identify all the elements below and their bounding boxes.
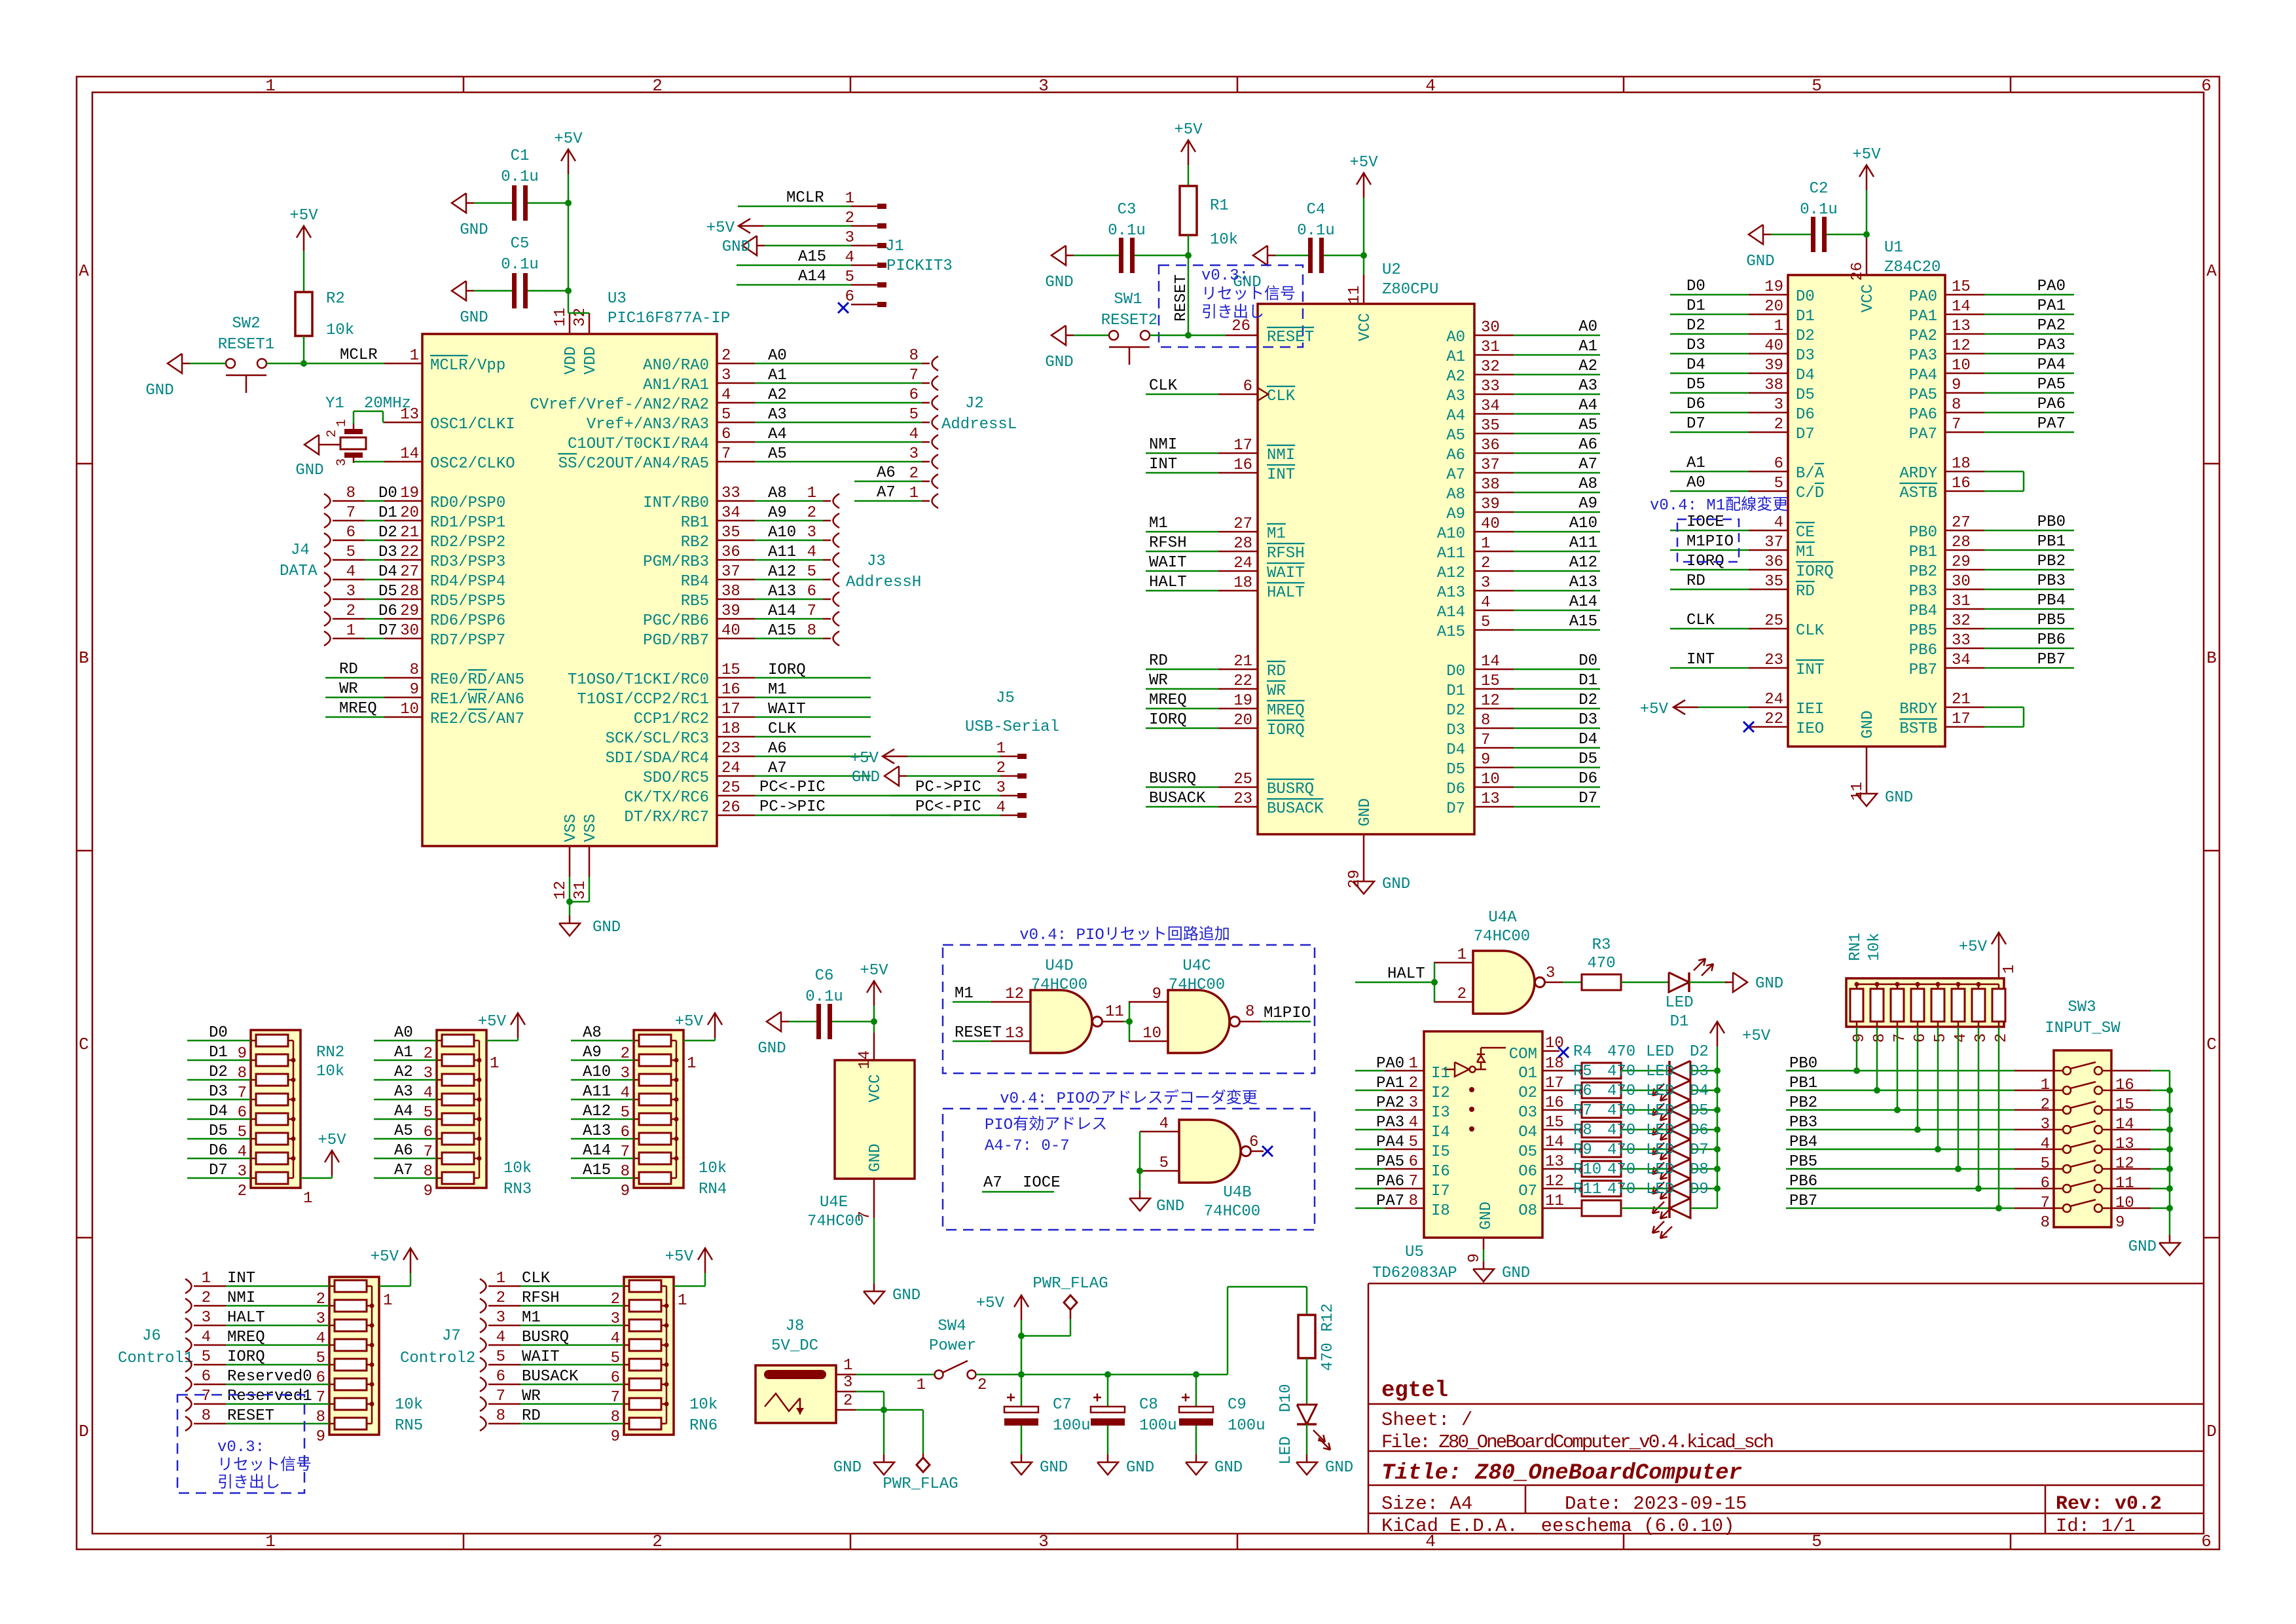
wire J7-1 to RN6 (520, 1285, 624, 1287)
wire D2 anode to +5V rail (1690, 1070, 1717, 1072)
power +5V at LED rail (1717, 1022, 1719, 1046)
svg-text:D7: D7 (1690, 1141, 1709, 1159)
wire A4 to RN3 (374, 1118, 437, 1120)
RN2 resistor element 4 (256, 1094, 288, 1105)
U3 pin 23 SDI/SDA/RC4 (717, 756, 755, 758)
wire GND to C4 (1275, 255, 1308, 257)
svg-text:8: 8 (1481, 712, 1490, 729)
U3 pin 32 VDD (589, 313, 591, 334)
U2 pin 2 A12 (1474, 570, 1514, 572)
wire PA1 stub (1984, 314, 2074, 316)
svg-text:B/A: B/A (1796, 465, 1825, 483)
wire MREQ stub to U2 (1146, 708, 1218, 710)
svg-text:12: 12 (2115, 1155, 2134, 1173)
svg-text:+5V: +5V (675, 1013, 704, 1031)
svg-text:C8: C8 (1139, 1396, 1158, 1414)
wire C2 to VCC (1827, 234, 1867, 236)
wire A5 U3 to J2 (755, 461, 922, 463)
svg-text:v0.4: PIOのアドレスデコーダ変更: v0.4: PIOのアドレスデコーダ変更 (1000, 1089, 1258, 1108)
wire PC->PIC stub at U3 (755, 815, 951, 817)
svg-text:GND: GND (1357, 798, 1374, 826)
svg-text:PA5: PA5 (1909, 386, 1937, 404)
svg-text:470: 470 (1607, 1141, 1635, 1159)
J8 zigzag symbol (765, 1393, 800, 1411)
svg-text:MREQ: MREQ (227, 1329, 265, 1346)
svg-text:A4: A4 (1578, 397, 1597, 415)
J6 pin 1 net INT (185, 1279, 192, 1293)
svg-text:D1: D1 (378, 504, 397, 522)
svg-text:SW4: SW4 (938, 1318, 966, 1335)
junction PB4 pullup (1935, 1146, 1941, 1153)
wire GND to Y1 pin2 (327, 444, 340, 446)
RN1 resistor element 5 (1931, 989, 1944, 1022)
svg-text:RN1: RN1 (1847, 932, 1865, 961)
svg-text:v0.3:: v0.3: (1201, 267, 1248, 285)
wire SW2 to MCLR junction (190, 363, 226, 365)
svg-text:A2: A2 (1578, 358, 1597, 375)
LED D1 (1669, 972, 1689, 992)
svg-text:32: 32 (1481, 358, 1500, 376)
wire U4E GND down (873, 1218, 875, 1283)
U1 pin 13 PA2 (1945, 333, 1984, 335)
SW3 switch element 7 (2063, 1185, 2071, 1192)
svg-text:A3: A3 (1578, 377, 1597, 395)
wire A2 U3 to J2 (755, 402, 922, 404)
wire A9 U3 to J3 (755, 520, 823, 522)
RN5 pin 3 (329, 1305, 335, 1307)
U2 pin 9 D5 (1474, 767, 1514, 769)
U2 pin 37 A7 (1474, 472, 1514, 474)
svg-text:Z80CPU: Z80CPU (1382, 281, 1438, 299)
junction RESET (1185, 332, 1192, 339)
svg-text:470: 470 (1607, 1043, 1635, 1061)
J6 pin 3 net HALT (185, 1318, 192, 1333)
svg-text:74HC00: 74HC00 (1204, 1203, 1260, 1221)
U1 pin 7 PA7 (1945, 432, 1984, 434)
power +5V at J1-2 (738, 219, 750, 233)
svg-text:PB1: PB1 (2037, 533, 2066, 551)
svg-text:24: 24 (1233, 555, 1252, 572)
wire SW3 pin 13 to GND rail (2151, 1129, 2170, 1131)
svg-text:16: 16 (721, 681, 740, 699)
svg-text:GND: GND (1755, 975, 1783, 993)
RN1 pin 1 (1998, 957, 2000, 978)
svg-text:HALT: HALT (1387, 965, 1425, 983)
svg-text:74HC00: 74HC00 (807, 1213, 864, 1230)
wire RN3 pin1 to +5V (486, 1040, 518, 1042)
wire MCLR to J1-1 (738, 206, 851, 208)
svg-text:1: 1 (678, 1292, 687, 1310)
power +5V at rail (1021, 1295, 1023, 1320)
svg-text:M1: M1 (522, 1309, 541, 1327)
svg-text:v0.4: M1配線変更: v0.4: M1配線変更 (1650, 496, 1788, 515)
wire CLK stub to U1 (1670, 628, 1749, 630)
U1 pin 17 BSTB (1945, 726, 1984, 728)
svg-text:D7: D7 (1686, 415, 1705, 433)
svg-text:24: 24 (721, 760, 740, 777)
svg-text:PB6: PB6 (1909, 642, 1937, 659)
RN5 pin 5 (329, 1344, 335, 1346)
power +5V above R1 (1188, 140, 1190, 165)
svg-text:RESET: RESET (1173, 274, 1190, 322)
wire RN2 pin1 to +5V (301, 1177, 332, 1179)
svg-text:IOCE: IOCE (1686, 513, 1724, 531)
wire PB0 stub (1984, 530, 2074, 532)
svg-text:PB6: PB6 (2037, 631, 2066, 649)
resistor R10 (1582, 1181, 1621, 1196)
svg-text:3: 3 (1774, 396, 1783, 414)
wire R10 to LED D8 (1621, 1188, 1669, 1190)
J7 pin 3 net M1 (480, 1318, 486, 1333)
svg-text:5: 5 (1409, 1134, 1418, 1151)
svg-text:4: 4 (496, 1329, 505, 1346)
svg-text:16: 16 (1545, 1094, 1564, 1112)
nand gate U4A (1473, 951, 1535, 1014)
svg-text:D6: D6 (1686, 396, 1705, 413)
J2 pin 1 (932, 494, 939, 508)
svg-text:NMI: NMI (227, 1289, 255, 1307)
svg-text:LED: LED (1646, 1102, 1674, 1120)
RN2 resistor element 5 (256, 1113, 288, 1125)
svg-text:1: 1 (909, 485, 919, 502)
svg-text:LED: LED (1646, 1141, 1674, 1159)
wire D6 to RN2 (187, 1158, 251, 1160)
wire D4 to RN2 (187, 1118, 251, 1120)
junction PB7 pullup (1995, 1205, 2002, 1211)
svg-text:10: 10 (2115, 1194, 2134, 1212)
wire D4 stub to U1 (1670, 373, 1749, 375)
U1 pin 9 PA5 (1945, 392, 1984, 394)
svg-text:MREQ: MREQ (1149, 692, 1187, 709)
J3 pin 5 (833, 572, 840, 587)
svg-text:B: B (79, 648, 89, 668)
svg-text:1: 1 (996, 740, 1006, 758)
U2 CLK clock symbol (1258, 388, 1268, 401)
svg-text:U5: U5 (1405, 1244, 1424, 1261)
svg-text:IORQ: IORQ (768, 661, 806, 679)
svg-text:16: 16 (2115, 1077, 2134, 1094)
svg-text:5: 5 (1774, 475, 1783, 492)
svg-text:RD: RD (1149, 652, 1168, 670)
svg-text:VCC: VCC (1357, 313, 1374, 341)
svg-text:5: 5 (1932, 1033, 1950, 1043)
U1 pin 4 CE (1749, 530, 1788, 532)
U1 pin 22 IEO (1749, 726, 1788, 728)
svg-text:37: 37 (1764, 534, 1783, 551)
wire to top PWR_FLAG (1021, 1335, 1070, 1337)
svg-text:14: 14 (1481, 653, 1500, 671)
resistor R11 (1582, 1200, 1621, 1216)
svg-text:R6: R6 (1573, 1082, 1592, 1100)
svg-text:M1PIO: M1PIO (1264, 1005, 1311, 1022)
svg-text:5: 5 (346, 544, 355, 561)
svg-text:OSC1/CLKI: OSC1/CLKI (430, 416, 515, 434)
J3 pin 6 (833, 592, 840, 606)
wire D2 stub (1514, 708, 1600, 710)
svg-text:WAIT: WAIT (1149, 554, 1187, 572)
svg-text:0.1u: 0.1u (1297, 222, 1335, 240)
svg-text:GND: GND (1214, 1459, 1243, 1477)
RN4 resistor element 7 (639, 1153, 671, 1164)
svg-text:A9: A9 (583, 1044, 602, 1061)
svg-text:0.1u: 0.1u (501, 168, 539, 186)
svg-text:D1: D1 (1670, 1013, 1689, 1031)
RN1 resistor element 8 (1992, 989, 2005, 1022)
svg-text:17: 17 (1952, 710, 1971, 728)
svg-text:RE2/CS/AN7: RE2/CS/AN7 (430, 710, 524, 728)
wire A0 stub (1514, 335, 1600, 337)
note box v0.4 PIO reset circuit (943, 945, 1315, 1073)
svg-text:D6: D6 (1446, 781, 1465, 798)
svg-text:21: 21 (400, 524, 419, 542)
wire WAIT stub to U2 (1146, 570, 1218, 572)
RN2 internal bus (293, 1041, 295, 1178)
svg-text:PA0: PA0 (1909, 288, 1937, 306)
power +5V above U2 (1363, 173, 1365, 198)
capacitor C7 polarized (1004, 1407, 1038, 1412)
J3 pin 8 (833, 631, 840, 646)
RN6 resistor element 3 (629, 1319, 661, 1331)
svg-text:1: 1 (845, 190, 854, 208)
wire GND to C2 (1771, 234, 1811, 236)
svg-text:RE0/RD/AN5: RE0/RD/AN5 (430, 671, 524, 689)
svg-text:35: 35 (1764, 573, 1783, 591)
svg-text:14: 14 (856, 1050, 874, 1069)
U5 pin 18 O1 (1542, 1070, 1582, 1072)
svg-text:10k: 10k (1866, 932, 1884, 961)
svg-text:5: 5 (496, 1348, 505, 1366)
U5 pin 3 I3 (1385, 1109, 1424, 1111)
U1 pin 2 D7 (1749, 432, 1788, 434)
wire junction to +5V (1021, 1320, 1023, 1336)
svg-text:+5V: +5V (860, 962, 888, 980)
svg-text:D1: D1 (1578, 672, 1597, 690)
RN2 pin 3 net D6 (251, 1158, 256, 1160)
junction PB2 pullup (1894, 1107, 1901, 1113)
J2 pin 6 (932, 396, 939, 410)
J7 pin 8 net RD (480, 1416, 486, 1431)
no-connect J1-6 (838, 303, 848, 313)
wire RESET vertical (1188, 255, 1190, 335)
svg-text:GND: GND (1382, 876, 1410, 893)
wire RD stub to U1 (1670, 589, 1749, 591)
svg-text:A7: A7 (1446, 466, 1465, 484)
wire D6 stub (1514, 786, 1600, 788)
wire rail to C7 (1021, 1375, 1023, 1407)
svg-text:6: 6 (1243, 378, 1252, 396)
svg-text:CLK: CLK (1796, 622, 1825, 640)
IC U5 TD62083AP body (1424, 1031, 1542, 1238)
U2 pin 34 A4 (1474, 413, 1514, 415)
junction LED rail (1714, 1067, 1721, 1074)
svg-text:7: 7 (2041, 1194, 2050, 1212)
wire PA3 to U5 (1355, 1129, 1385, 1131)
U3 pin 20 RD1/PSP1 (384, 520, 422, 522)
wire RESET to U4D (953, 1041, 991, 1043)
RN6 pin 6 (624, 1364, 629, 1366)
wire J7-2 to RN6 (520, 1305, 624, 1307)
svg-text:J3: J3 (867, 553, 886, 570)
svg-text:2: 2 (652, 76, 663, 96)
wire D1 stub (1514, 688, 1600, 690)
svg-text:11: 11 (552, 308, 570, 327)
U1 pin 21 BRDY (1945, 707, 1984, 709)
svg-text:+5V: +5V (706, 219, 735, 237)
U4E pin 7 GND (873, 1179, 875, 1218)
svg-text:A12: A12 (1569, 554, 1597, 572)
wire D3 stub (1514, 728, 1600, 729)
wire D5 anode to +5V rail (1690, 1129, 1717, 1131)
wire A9 to RN4 (571, 1060, 634, 1061)
U3 pin 12 VSS (569, 846, 571, 877)
U3 pin 39 PGC/RB6 (717, 618, 755, 620)
svg-text:GND: GND (460, 221, 488, 239)
svg-text:36: 36 (1481, 437, 1500, 454)
svg-text:RESET: RESET (1267, 329, 1314, 346)
J6 pin 6 net Reserved0 (185, 1377, 192, 1392)
svg-text:5: 5 (845, 268, 854, 286)
RN1 resistor element 2 (1870, 989, 1884, 1022)
capacitor C1 (512, 185, 517, 221)
U2 pin 1 A11 (1474, 551, 1514, 553)
RN6 pin 5 (624, 1344, 629, 1346)
svg-text:A10: A10 (768, 524, 796, 542)
wire +5V to J1-2 (763, 225, 851, 227)
svg-text:15: 15 (2115, 1096, 2134, 1114)
svg-text:5: 5 (807, 563, 816, 581)
wire A0 stub to U1 (1670, 490, 1749, 492)
svg-text:RFSH: RFSH (1267, 545, 1305, 563)
svg-text:2: 2 (909, 465, 919, 483)
svg-text:PA1: PA1 (2037, 297, 2066, 315)
svg-text:O3: O3 (1518, 1104, 1537, 1122)
junction C5 (565, 287, 572, 294)
wire PC->PIC to J5-3 (890, 795, 1000, 797)
wire A6 stub to J2 (854, 481, 922, 483)
svg-text:+5V: +5V (371, 1248, 399, 1266)
svg-text:5: 5 (1159, 1154, 1169, 1172)
wire to ground (883, 1410, 885, 1454)
RN2 resistor element 7 (256, 1153, 288, 1164)
svg-text:A6: A6 (768, 740, 787, 758)
svg-text:NMI: NMI (1267, 447, 1295, 464)
svg-text:14: 14 (400, 445, 419, 463)
wire A3 stub (1514, 394, 1600, 396)
junction C8 (1104, 1371, 1111, 1378)
wire PB3 stub (1984, 589, 2074, 591)
svg-text:D1: D1 (1686, 297, 1705, 315)
wire D0 to RN2 (187, 1040, 251, 1042)
wire A15 to RN4 (571, 1177, 634, 1179)
svg-text:INT: INT (1267, 466, 1295, 484)
svg-text:CCP1/RC2: CCP1/RC2 (634, 710, 709, 728)
wire A15 to J1-4 (737, 265, 851, 267)
wire R6 to LED D4 (1621, 1109, 1669, 1111)
wire PC<-PIC stub at U3 (755, 795, 951, 797)
svg-text:GND: GND (757, 1040, 786, 1058)
svg-text:9: 9 (621, 1183, 630, 1200)
svg-text:LED: LED (1646, 1181, 1674, 1198)
ground below U2 (1363, 874, 1365, 881)
svg-text:9: 9 (1952, 377, 1961, 394)
svg-text:T1OSO/T1CKI/RC0: T1OSO/T1CKI/RC0 (568, 671, 709, 689)
U2 pin 5 A15 (1474, 629, 1514, 631)
svg-text:WAIT: WAIT (768, 701, 806, 718)
svg-text:BUSACK: BUSACK (1149, 790, 1206, 807)
RN1 resistor element 3 (1891, 989, 1904, 1022)
svg-text:D1: D1 (1446, 682, 1465, 700)
svg-text:Vref+/AN3/RA3: Vref+/AN3/RA3 (587, 416, 709, 434)
svg-text:A13: A13 (1437, 584, 1465, 602)
J8 pin 1 (836, 1374, 856, 1376)
svg-text:4: 4 (807, 544, 816, 561)
RN6 pin 4 (624, 1325, 629, 1327)
svg-text:A11: A11 (1569, 534, 1597, 552)
U5 pin 15 O4 (1542, 1129, 1582, 1131)
junction U4A inputs (1431, 979, 1438, 986)
svg-text:SW1: SW1 (1114, 291, 1142, 308)
wire D7 stub (1514, 806, 1600, 808)
svg-text:28: 28 (1952, 534, 1971, 551)
svg-text:GND: GND (1040, 1459, 1068, 1477)
wire PA7 stub (1984, 432, 2074, 434)
wire D2 stub to U1 (1670, 333, 1749, 335)
RN3 resistor element 5 (442, 1113, 474, 1125)
svg-text:D4: D4 (209, 1103, 228, 1120)
svg-text:RN4: RN4 (699, 1181, 727, 1198)
svg-text:WR: WR (1149, 672, 1168, 690)
svg-text:25: 25 (1764, 612, 1783, 630)
ground left of C2 (1749, 225, 1763, 244)
junction LED rail (1714, 1166, 1721, 1172)
wire D5 stub (1514, 767, 1600, 769)
wire A2 to RN3 (374, 1079, 437, 1081)
svg-text:7: 7 (1409, 1173, 1418, 1190)
svg-text:11: 11 (2115, 1175, 2134, 1192)
U4D pin 11 output (1102, 1021, 1123, 1023)
svg-text:470: 470 (1607, 1122, 1635, 1139)
wire D0 stub (1514, 669, 1600, 671)
J2 pin 5 (932, 415, 939, 430)
U4E pin 14 VCC (873, 1022, 875, 1033)
U2 pin 39 A9 (1474, 511, 1514, 513)
svg-text:D3: D3 (1578, 711, 1597, 729)
svg-text:C7: C7 (1053, 1396, 1072, 1414)
SW3 switch element 2 (2063, 1086, 2071, 1094)
svg-text:4: 4 (721, 386, 731, 404)
svg-text:0.1u: 0.1u (805, 988, 843, 1006)
wire Y1 pin1 to OSC1 (353, 423, 355, 429)
U1 pin 27 PB0 (1945, 530, 1984, 532)
U3 pin 11 VDD (569, 313, 571, 334)
J5 pin 1 (1000, 756, 1017, 758)
svg-text:1: 1 (807, 485, 816, 502)
svg-text:PB0: PB0 (2037, 513, 2066, 531)
switch SW3 INPUT_SW body (2054, 1050, 2111, 1227)
svg-text:8: 8 (1952, 396, 1961, 414)
resistor R3 (1582, 974, 1621, 990)
svg-text:I7: I7 (1431, 1183, 1450, 1200)
wire PA7 to U5 (1355, 1208, 1385, 1209)
U2 pin 12 D2 (1474, 708, 1514, 710)
svg-text:VDD: VDD (582, 346, 600, 375)
RN4 resistor element 4 (639, 1094, 671, 1105)
wire PB7 to SW3 (1786, 1208, 2014, 1209)
SW3 pin 7 (2014, 1188, 2063, 1190)
svg-text:R1: R1 (1210, 197, 1229, 215)
U2 pin 4 A14 (1474, 610, 1514, 612)
svg-text:DATA: DATA (280, 563, 318, 580)
